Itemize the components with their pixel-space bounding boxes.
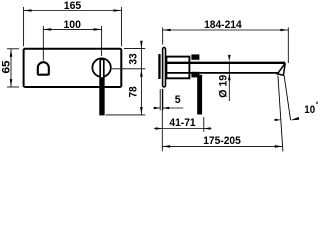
spout tube bottom edge (166, 72, 277, 74)
dim 65: extension line bottom (7, 86, 19, 88)
spout outlet front (arch) (38, 62, 49, 75)
dim 65: extension line top (7, 48, 19, 50)
dim 78: bottom arrow (pointing down) (140, 107, 143, 115)
in-wall body bar (158, 54, 160, 79)
sleeve around spout (166, 57, 189, 79)
dim 175-205: right arrow (275, 145, 283, 148)
dim 184-214: extension line right (287, 27, 289, 63)
dim 33/78: extension line at handle centre (112, 68, 146, 70)
10 deg annotation: right arrow (pointing left at stream B) (291, 117, 300, 120)
svg-text:100: 100 (64, 19, 81, 31)
wall plate side profile (163, 48, 166, 87)
dim 33: top arrow (outside, pointing down) (140, 41, 143, 49)
dim 165: extension line left (23, 7, 25, 46)
dim 165: left arrow (24, 9, 32, 12)
10 deg annotation: left arrow (pointing right at stream A) (275, 119, 282, 122)
water stream line B (284, 75, 291, 120)
svg-text:165: 165 (64, 0, 81, 12)
spout tube top edge (166, 62, 285, 64)
lever side view (197, 75, 202, 115)
dim 41-71: right extension line (lever face) (203, 117, 205, 132)
dim 165: right arrow (114, 9, 122, 12)
svg-text:184-214: 184-214 (204, 19, 242, 31)
dim 165: extension line right (120, 7, 122, 46)
dim 5: right arrow (outside, pointing left) (163, 107, 169, 109)
dim 33/78: extension line at lever bottom (106, 114, 146, 116)
dim 100: extension line left (to arch top) (42, 26, 44, 61)
wall plate front (24, 49, 122, 87)
dim 100: extension line right (to handle top) (101, 26, 103, 56)
dim 33/78: extension line at plate top right (124, 48, 145, 50)
svg-text:175-205: 175-205 (203, 135, 241, 147)
dim 184-214: right arrow (280, 29, 288, 32)
dim 184-214: left arrow (163, 29, 171, 32)
dim 65: top arrow (10, 49, 13, 57)
dim 65: dimension line (10, 49, 12, 87)
svg-text:41-71: 41-71 (169, 117, 195, 129)
dim 100: right arrow (94, 28, 102, 31)
dim 175-205: dimension line (162, 145, 282, 147)
dim Ø19: bottom arrow (below tube, pointing up) (228, 74, 231, 81)
svg-text:Ø 19: Ø 19 (217, 75, 229, 98)
dim 41-71: left arrow (outside, pointing right) (156, 127, 163, 129)
handle lever front: outlined upper part (100, 59, 104, 114)
spout tip (beak) (277, 63, 285, 75)
svg-text:78: 78 (128, 86, 140, 97)
dim 41-71: dimension line (154, 128, 212, 130)
handle lever front: solid lower part (99, 77, 104, 114)
water stream line A (278, 76, 283, 152)
dim 184-214: dimension line (163, 29, 289, 31)
dim 5: extension lines (159, 89, 161, 110)
dim 33/78: shared dimension line (140, 41, 142, 115)
dim 175-205: left arrow (163, 145, 171, 148)
dim 65: bottom arrow (10, 79, 13, 87)
svg-text:33: 33 (128, 53, 140, 64)
dim Ø19: leader line (228, 61, 230, 101)
ring bottom block (191, 72, 199, 78)
dim 100: dimension line (43, 28, 101, 30)
svg-text:10: 10 (304, 104, 315, 116)
dim 184-214: extension line left (162, 27, 164, 44)
dim 41-71: right arrow (outside, pointing left) (204, 127, 211, 129)
svg-text:°: ° (315, 101, 318, 109)
dim 5: dimension line tail right (leader under label) (163, 107, 183, 109)
dim 5: left arrow (outside, pointing right) (154, 107, 160, 109)
dim 100: left arrow (44, 28, 52, 31)
dim 165: dimension line (24, 10, 122, 12)
svg-text:65: 65 (0, 61, 12, 74)
ring top block (191, 54, 199, 59)
common wall extension line (left, lower) (161, 89, 163, 151)
dim 33/78: middle arrow (pointing up) (140, 69, 143, 77)
dim Ø19: top arrow (above tube, pointing down) (228, 55, 231, 62)
svg-text:5: 5 (175, 94, 181, 106)
handle circle front (92, 58, 110, 76)
